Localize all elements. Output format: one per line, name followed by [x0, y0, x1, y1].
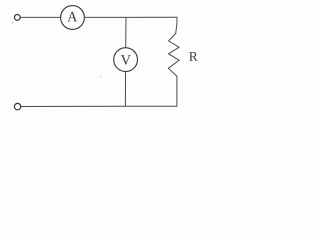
wire (voltmeter bottom down to bottom rail)	[124, 72, 126, 107]
terminal T2 (bottom-left open circle)	[14, 103, 20, 109]
wire (top-right corner down to resistor top)	[176, 17, 177, 33]
faint scan speck	[12, 22, 14, 23]
label R (resistor value label)	[189, 52, 198, 61]
wire (bottom rail from corner to terminal T2)	[21, 105, 177, 107]
voltmeter U2 circle	[114, 48, 138, 72]
faint scan speck	[100, 77, 101, 78]
ammeter U1 circle	[61, 6, 85, 30]
wire (terminal T1 to ammeter)	[20, 16, 60, 18]
wire (ammeter to node A junction to top-right corner)	[85, 16, 177, 18]
resistor R zigzag	[168, 33, 179, 76]
wire (node A junction down to voltmeter top)	[125, 17, 127, 47]
terminal T1 (top-left open circle)	[14, 15, 20, 21]
label A (ammeter)	[67, 12, 77, 22]
wire (resistor bottom down to bottom-right corner)	[176, 76, 178, 106]
label V (voltmeter)	[121, 55, 131, 65]
